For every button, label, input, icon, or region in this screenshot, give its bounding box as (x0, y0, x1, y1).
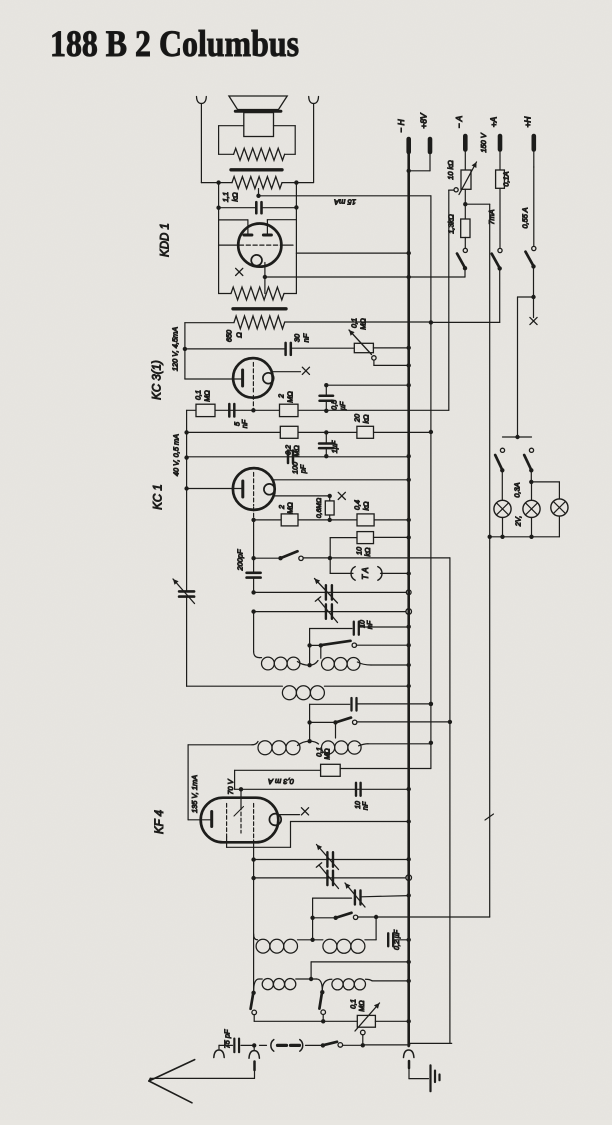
loudspeaker (229, 96, 287, 137)
svg-text:70 V: 70 V (226, 778, 235, 794)
terminal row R on bus (406, 875, 412, 881)
coil 5b (322, 979, 411, 991)
transformer core 2 (233, 307, 286, 310)
resistor 10 kOhm (330, 532, 411, 544)
node antenna junction (309, 977, 313, 981)
wire KC1 anode (187, 488, 243, 490)
capacitor row M (352, 698, 434, 711)
wire row P (235, 787, 411, 792)
KF4 grid 2 (234, 806, 244, 833)
svg-text:KDD 1: KDD 1 (160, 223, 172, 257)
label KDD 1 (160, 223, 172, 257)
svg-text:MΩ: MΩ (286, 391, 295, 403)
node winding left (216, 180, 220, 184)
switch band T (310, 913, 489, 920)
node coil junction 3 (307, 739, 311, 743)
label +A (489, 116, 499, 127)
wire row E down (449, 558, 451, 1044)
svg-text:75 pF: 75 pF (223, 1029, 232, 1048)
coil 2 wave trap (282, 684, 411, 700)
svg-text:+A: +A (489, 116, 499, 127)
svg-text:MΩ: MΩ (359, 318, 368, 330)
svg-text:650: 650 (225, 329, 234, 342)
wire KF4 g1 return (227, 819, 411, 847)
switch antenna 3 (306, 1042, 411, 1048)
wire +A (499, 188, 501, 248)
lamp 1 (494, 500, 511, 539)
switch antenna 1 (251, 991, 257, 1022)
label 15mA (334, 198, 356, 207)
antenna symbol (149, 1060, 195, 1103)
field coil winding (219, 148, 296, 160)
label 150V (479, 132, 488, 152)
svg-text:1,1: 1,1 (221, 192, 230, 202)
wire KC3 anode (185, 378, 242, 380)
svg-text:Ω: Ω (235, 332, 244, 338)
label 10nF row J (360, 620, 375, 629)
terminal +A (498, 136, 503, 170)
wire lamp 3 feed (531, 482, 559, 499)
wire osc cap branch (375, 917, 377, 940)
lamp 2 (523, 482, 540, 539)
wire row D (251, 518, 410, 522)
svg-text:+8V: +8V (419, 112, 429, 129)
node -A (463, 189, 490, 219)
svg-text:nF: nF (302, 333, 311, 342)
tube KDD1 envelope (238, 224, 281, 267)
capacitor 200pF (247, 573, 261, 591)
earth symbol (431, 1065, 440, 1091)
bus earth socket (404, 1050, 414, 1058)
tube KC3 envelope (233, 358, 273, 398)
label 0,1 MOhm row O (317, 747, 332, 760)
label 0,1 MOhm antenna (351, 999, 367, 1012)
capacitor 75pF (234, 1039, 239, 1053)
capacitor 10nF row P (356, 783, 361, 796)
svg-text:188 B 2 Columbus: 188 B 2 Columbus (50, 24, 299, 65)
node row M corner (307, 720, 311, 724)
resistor 20 kOhm (357, 426, 374, 438)
svg-text:KC 3(1): KC 3(1) (152, 360, 164, 400)
coil 4a (254, 934, 313, 953)
wire +H to lamps (518, 297, 534, 437)
wire row U (311, 960, 411, 979)
resistor 1,3 kOhm (461, 219, 470, 238)
node winding right (294, 180, 298, 184)
wire row F vertical (329, 538, 331, 574)
svg-text:40 V, 0,5 mA: 40 V, 0,5 mA (172, 434, 181, 476)
antenna plug lead (150, 1062, 255, 1079)
speaker suspension hook left (197, 97, 207, 183)
label 1 uF (330, 440, 339, 453)
label 75pF (223, 1029, 232, 1048)
svg-text:MΩ: MΩ (203, 390, 212, 402)
svg-text:µF: µF (338, 401, 347, 410)
wire right of cap (294, 183, 298, 294)
wire bias vertical (485, 204, 494, 917)
resistor 0,1 MOhm (196, 404, 215, 416)
terminal -A (463, 136, 468, 170)
node coil junction 1 (307, 663, 311, 667)
wire band line bottom (410, 1042, 452, 1044)
KC1 grid (253, 473, 255, 519)
svg-text:30: 30 (293, 333, 302, 342)
wire lamp return (490, 536, 560, 538)
capacitor 5nF (229, 404, 234, 417)
node 650 to anode line (429, 320, 433, 324)
KC1 cathode loop (264, 484, 275, 495)
label 2 MOhm row A (277, 391, 295, 403)
svg-text:2: 2 (277, 394, 286, 399)
label 0,3mA (268, 777, 294, 786)
fuse 0,1A (496, 170, 505, 188)
KDD1 cathode lead (263, 263, 267, 294)
capacitor 0,2 uF (388, 933, 411, 946)
label 135V 1mA (190, 775, 199, 813)
wire tube top right (267, 220, 296, 235)
label 2 MOhm row D (277, 502, 295, 514)
svg-text:0,3A: 0,3A (513, 482, 522, 497)
pickup jack TA (330, 567, 411, 581)
x mark KC1 (338, 492, 345, 499)
svg-text:kΩ: kΩ (362, 501, 371, 511)
primary winding 1,1 kOhm (201, 177, 313, 189)
KF4 cathode loop (269, 814, 281, 826)
label 0,3A (513, 482, 522, 497)
capacitor 1 uF (319, 432, 334, 456)
label 7mA (487, 209, 496, 224)
variable capacitor row H (315, 579, 338, 604)
x mark KF4 (301, 808, 308, 815)
svg-text:2V,: 2V, (514, 516, 523, 528)
resistor 2 MOhm row D (281, 514, 298, 526)
capacitor 0,5 uF (320, 383, 411, 410)
lamp 3 (551, 499, 568, 537)
svg-text:0,1: 0,1 (317, 747, 324, 757)
svg-text:10: 10 (360, 620, 367, 628)
wire KF4 screen (240, 789, 242, 806)
label 40V 0,5mA (172, 434, 181, 476)
label 120V 4,5mA (171, 327, 180, 371)
wire anode feed vertical (429, 196, 433, 743)
svg-text:0,1A: 0,1A (502, 171, 511, 186)
label -A (454, 115, 464, 128)
label 0,6 MOhm (316, 498, 323, 518)
wire row B (187, 454, 411, 458)
secondary winding (219, 287, 297, 300)
resistor 0,4 kOhm (357, 514, 374, 526)
variable capacitor row Q (317, 845, 339, 870)
wire row O (235, 770, 321, 789)
switch antenna 2 (319, 990, 325, 1024)
coil 5a (259, 979, 317, 990)
variable capacitor row I (315, 597, 337, 623)
svg-text:0,55 A: 0,55 A (521, 207, 530, 228)
label 0,55A (521, 207, 530, 228)
label 2V (514, 516, 523, 528)
wire row I (251, 609, 408, 613)
switch lamp 2 (524, 448, 533, 484)
wire 120V line (183, 323, 187, 379)
wire row A (187, 408, 449, 413)
earth plug lead (409, 1061, 429, 1079)
wire row W mid (241, 1043, 256, 1047)
label 1,1 kOhm (221, 192, 240, 202)
KDD1 grid (219, 244, 293, 246)
wire row V (254, 1020, 357, 1022)
terminal row H on bus (406, 590, 411, 595)
node coil junction 4 (310, 938, 314, 942)
label 5nF (233, 419, 250, 428)
svg-text:120 V, 4,5mA: 120 V, 4,5mA (171, 327, 180, 371)
label 650 Ohm (225, 329, 244, 342)
wire volume wiper (448, 190, 450, 410)
variable capacitor row R (316, 863, 338, 889)
speaker frame wires (219, 126, 296, 155)
svg-text:0,4: 0,4 (353, 500, 362, 510)
svg-text:kΩ: kΩ (362, 414, 371, 424)
wire KC1 grid down (251, 520, 255, 572)
KF4 anode plate (188, 812, 212, 827)
KDD1 cathode loop (251, 255, 262, 266)
tube KF4 envelope (201, 798, 279, 843)
svg-text:− A: − A (454, 115, 464, 128)
label KC 1 (153, 484, 165, 510)
label 100pF (291, 462, 308, 474)
svg-text:KC 1: KC 1 (153, 484, 165, 510)
potentiometer 10 kOhm (449, 162, 477, 195)
wire row S (313, 898, 352, 940)
svg-text:0,6MΩ: 0,6MΩ (316, 498, 323, 518)
svg-text:KF 4: KF 4 (154, 810, 166, 834)
antenna coil mid lead (317, 979, 323, 991)
resistor 0,1 MOhm row O (321, 743, 431, 777)
transformer core 1 (231, 168, 282, 171)
KF4 grid 3 (253, 804, 255, 841)
svg-text:+H: +H (523, 116, 533, 128)
potentiometer 0,1 MOhm antenna (355, 1003, 411, 1045)
svg-text:15 mA: 15 mA (334, 198, 356, 207)
switch +A (431, 248, 502, 322)
terminal +H (531, 136, 536, 167)
terminal -H (406, 139, 411, 152)
connector plug symbol (260, 1040, 303, 1052)
svg-text:200pF: 200pF (236, 549, 245, 571)
antenna socket (249, 1045, 259, 1058)
potentiometer 0,1 MOhm (349, 330, 411, 368)
terminal +8V (407, 139, 431, 173)
switch +H (526, 246, 536, 299)
svg-text:MΩ: MΩ (325, 748, 332, 760)
label +8V (419, 112, 429, 129)
svg-text:− H: − H (396, 118, 406, 132)
label 10nF row P (355, 801, 370, 810)
svg-text:kΩ: kΩ (231, 192, 240, 202)
label 20 kOhm (353, 414, 371, 424)
capacitor 30nF (185, 343, 354, 355)
coupling capacitor (219, 202, 297, 213)
KF4 grid 1 (226, 804, 228, 838)
bus -H (407, 152, 410, 1046)
resistor 0,2 MOhm (280, 426, 298, 438)
label 10 kOhm (355, 547, 373, 557)
resistor 0,6 MOhm (325, 496, 334, 520)
svg-text:MΩ: MΩ (286, 502, 295, 514)
KC3 cathode loop (263, 373, 274, 384)
svg-text:MΩ: MΩ (359, 1000, 366, 1012)
svg-text:nF: nF (363, 801, 370, 810)
wire to bus row 253 (296, 251, 411, 255)
svg-text:0,1: 0,1 (351, 999, 358, 1009)
resistor 650 Ohm (185, 316, 431, 329)
svg-text:0,3 m A: 0,3 m A (268, 777, 294, 786)
wire KF4 g3 down (251, 840, 255, 993)
switch band K (310, 641, 411, 658)
svg-text:0,2 µF: 0,2 µF (394, 929, 401, 950)
terminal earth socket (214, 1045, 224, 1057)
label KC 3(1) (152, 360, 164, 400)
node lamp feed (503, 435, 532, 439)
svg-text:T A: T A (361, 567, 370, 579)
svg-text:nF: nF (367, 620, 374, 629)
wire row C (187, 430, 433, 435)
KC3 cathode lead (273, 371, 301, 373)
label 1,3 kOhm (447, 214, 456, 234)
x mark KDD1 (236, 268, 243, 275)
wire row J vertical (307, 629, 311, 666)
coil 1b (310, 658, 411, 671)
label -H (396, 118, 406, 132)
switch band N (310, 718, 452, 738)
svg-text:nF: nF (240, 419, 249, 428)
label 0,1A (502, 171, 511, 186)
switch -A (409, 238, 468, 278)
wire row M (310, 704, 350, 741)
wire row R (254, 877, 409, 879)
svg-text:150 V: 150 V (479, 132, 488, 152)
svg-text:0,1: 0,1 (350, 318, 359, 328)
antenna coil left lead (254, 979, 259, 992)
wire cathode to bus (265, 275, 411, 279)
title (50, 24, 299, 65)
KC1 anode plate (241, 481, 244, 497)
wire left box KDD1 (216, 183, 220, 294)
label 200pF (236, 549, 245, 571)
wire row W left (219, 1044, 233, 1046)
switch band E (254, 551, 450, 560)
wire row J (310, 628, 352, 630)
label 0,4 kOhm (353, 500, 371, 511)
wire row Q (254, 857, 411, 861)
speaker suspension hook right (309, 97, 319, 182)
wire row L (187, 685, 283, 687)
coil 4b (313, 939, 377, 953)
KF4 cathode lead (279, 814, 300, 816)
svg-text:10: 10 (355, 801, 362, 809)
wire to coil 1 (254, 612, 260, 658)
wire row H (251, 590, 408, 594)
coil 1a (260, 657, 310, 670)
svg-text:135 V, 1mA: 135 V, 1mA (190, 775, 199, 813)
wire winding tap (256, 189, 260, 198)
svg-text:20: 20 (353, 414, 362, 423)
wire left supply vertical (184, 410, 188, 591)
label KF 4 (154, 810, 166, 834)
label 10 kOhm (446, 160, 455, 180)
x mark KC3 (302, 367, 309, 374)
resistor 2 MOhm row A (280, 404, 299, 416)
svg-text:pF: pF (299, 464, 308, 474)
KC3 grid (252, 363, 254, 409)
svg-text:7mA: 7mA (487, 209, 496, 224)
wire tube top left (219, 220, 248, 235)
label 70V (226, 778, 235, 794)
label +H (523, 116, 533, 128)
terminal row I on bus (406, 609, 412, 615)
svg-text:0,1: 0,1 (194, 390, 203, 400)
svg-text:10 kΩ: 10 kΩ (446, 160, 455, 180)
label 0,5 uF (330, 399, 348, 410)
wire +H (533, 167, 535, 246)
wire 15mA row (259, 195, 431, 197)
variable capacitor tuning gang (173, 579, 195, 686)
label 0,2 uF (394, 929, 401, 950)
svg-text:1µF: 1µF (330, 440, 339, 453)
KC1 cathode lead (274, 494, 332, 498)
variable capacitor row S (345, 883, 411, 907)
coil 3b (310, 741, 433, 755)
label 30nF (293, 333, 311, 342)
coil 3a (258, 741, 310, 755)
tube KC1 envelope (233, 468, 275, 510)
KC3 anode plate (241, 370, 244, 386)
wire anode 135V horizontal (188, 741, 258, 744)
capacitor 100pF (288, 451, 293, 464)
wire KC1 to bus (273, 478, 411, 482)
capacitor 10nF row J (354, 622, 411, 635)
wire +H x stub (530, 297, 537, 325)
svg-text:kΩ: kΩ (363, 547, 372, 557)
wire 135V vertical (187, 745, 189, 820)
KDD1 anode plates (244, 234, 272, 237)
label 0,2 MOhm (284, 445, 302, 457)
switch lamp 1 (495, 448, 504, 500)
label 0,1 MOhm pot (350, 318, 368, 330)
label 0,1 MOhm (194, 390, 212, 402)
svg-text:1,3kΩ: 1,3kΩ (447, 214, 456, 234)
